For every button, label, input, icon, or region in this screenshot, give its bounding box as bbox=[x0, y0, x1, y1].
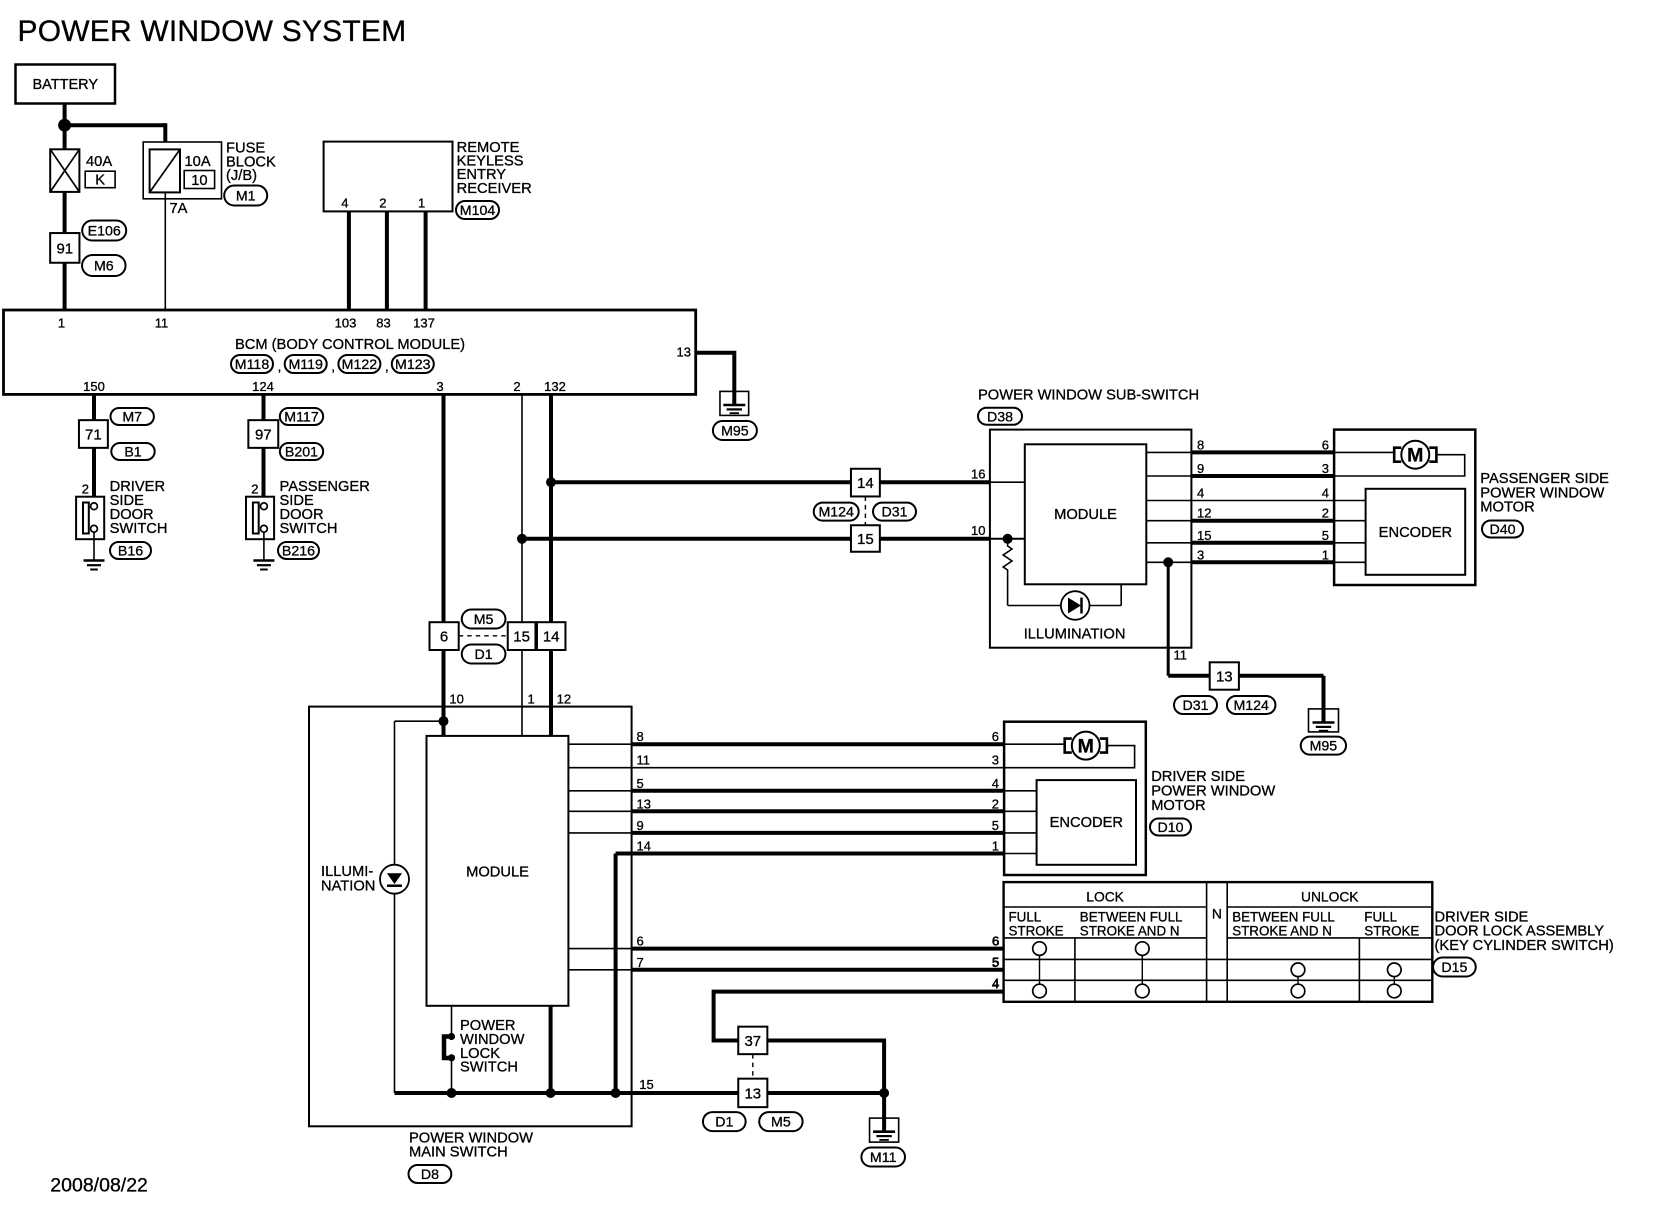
svg-text:SWITCH: SWITCH bbox=[280, 521, 338, 537]
svg-text:10: 10 bbox=[191, 173, 207, 189]
svg-text:M: M bbox=[1078, 736, 1094, 758]
svg-text:2: 2 bbox=[379, 196, 386, 211]
svg-text:STROKE AND N: STROKE AND N bbox=[1232, 924, 1332, 939]
svg-text:FULL: FULL bbox=[1009, 910, 1042, 925]
svg-text:15: 15 bbox=[639, 1077, 653, 1092]
svg-text:14: 14 bbox=[637, 839, 651, 854]
svg-text:K: K bbox=[95, 172, 105, 188]
svg-text:M1: M1 bbox=[236, 189, 256, 205]
svg-text:M124: M124 bbox=[818, 505, 854, 521]
svg-text:ILLUMINATION: ILLUMINATION bbox=[1024, 627, 1126, 643]
svg-text:LOCK: LOCK bbox=[1086, 890, 1124, 905]
svg-text:3: 3 bbox=[1197, 547, 1204, 562]
svg-text:5: 5 bbox=[992, 818, 999, 833]
svg-text:ENCODER: ENCODER bbox=[1379, 525, 1452, 541]
svg-text:D31: D31 bbox=[1182, 698, 1208, 714]
svg-text:BETWEEN FULL: BETWEEN FULL bbox=[1232, 910, 1335, 925]
svg-text:DRIVER SIDE: DRIVER SIDE bbox=[1151, 769, 1245, 785]
svg-text:2: 2 bbox=[82, 482, 89, 497]
svg-text:,: , bbox=[278, 358, 282, 374]
svg-text:MAIN SWITCH: MAIN SWITCH bbox=[409, 1145, 508, 1161]
svg-text:BETWEEN FULL: BETWEEN FULL bbox=[1080, 910, 1183, 925]
svg-text:5: 5 bbox=[637, 776, 644, 791]
svg-text:150: 150 bbox=[83, 379, 105, 394]
svg-text:D1: D1 bbox=[475, 647, 493, 663]
svg-text:(J/B): (J/B) bbox=[226, 168, 257, 184]
svg-text:9: 9 bbox=[637, 818, 644, 833]
svg-text:6: 6 bbox=[440, 629, 448, 646]
svg-text:3: 3 bbox=[1322, 461, 1329, 476]
svg-text:97: 97 bbox=[255, 426, 272, 443]
svg-text:BATTERY: BATTERY bbox=[33, 77, 99, 93]
svg-text:B201: B201 bbox=[285, 445, 318, 461]
svg-text:11: 11 bbox=[155, 316, 169, 331]
svg-text:STROKE AND N: STROKE AND N bbox=[1080, 924, 1180, 939]
svg-text:6: 6 bbox=[637, 934, 644, 949]
svg-text:D38: D38 bbox=[987, 409, 1013, 425]
svg-text:2: 2 bbox=[513, 379, 520, 394]
svg-text:(KEY CYLINDER SWITCH): (KEY CYLINDER SWITCH) bbox=[1435, 938, 1614, 954]
svg-text:M124: M124 bbox=[1233, 698, 1269, 714]
svg-text:1: 1 bbox=[992, 839, 999, 854]
svg-text:9: 9 bbox=[1197, 461, 1204, 476]
svg-text:71: 71 bbox=[85, 426, 102, 443]
svg-text:D15: D15 bbox=[1441, 960, 1467, 976]
svg-text:6: 6 bbox=[992, 729, 999, 744]
svg-text:4: 4 bbox=[1197, 486, 1204, 501]
svg-text:POWER WINDOW SYSTEM: POWER WINDOW SYSTEM bbox=[18, 15, 407, 48]
svg-text:N: N bbox=[1212, 906, 1222, 921]
svg-text:D1: D1 bbox=[715, 1115, 733, 1131]
svg-text:83: 83 bbox=[376, 316, 390, 331]
svg-text:13: 13 bbox=[677, 345, 691, 360]
svg-text:D10: D10 bbox=[1157, 820, 1183, 836]
svg-text:132: 132 bbox=[544, 379, 566, 394]
svg-text:D8: D8 bbox=[421, 1167, 439, 1183]
svg-text:M5: M5 bbox=[474, 612, 494, 628]
svg-text:7A: 7A bbox=[170, 201, 188, 217]
svg-text:2: 2 bbox=[1322, 506, 1329, 521]
svg-text:FULL: FULL bbox=[1364, 910, 1397, 925]
svg-text:10: 10 bbox=[449, 692, 463, 707]
svg-text:124: 124 bbox=[252, 379, 274, 394]
svg-text:M5: M5 bbox=[771, 1115, 791, 1131]
svg-text:UNLOCK: UNLOCK bbox=[1301, 890, 1359, 905]
svg-text:13: 13 bbox=[1216, 668, 1233, 685]
svg-text:D40: D40 bbox=[1489, 522, 1515, 538]
svg-text:NATION: NATION bbox=[321, 879, 375, 895]
svg-text:8: 8 bbox=[1197, 437, 1204, 452]
svg-text:2: 2 bbox=[992, 796, 999, 811]
svg-text:103: 103 bbox=[335, 316, 357, 331]
svg-text:BCM (BODY CONTROL MODULE): BCM (BODY CONTROL MODULE) bbox=[235, 337, 465, 353]
svg-text:4: 4 bbox=[341, 196, 348, 211]
svg-text:MODULE: MODULE bbox=[1054, 507, 1117, 523]
svg-text:10A: 10A bbox=[185, 154, 211, 170]
svg-text:1: 1 bbox=[58, 316, 65, 331]
svg-text:1: 1 bbox=[418, 196, 425, 211]
svg-text:M122: M122 bbox=[342, 357, 378, 373]
svg-text:14: 14 bbox=[543, 629, 560, 646]
svg-text:M104: M104 bbox=[460, 203, 496, 219]
svg-text:STROKE: STROKE bbox=[1009, 924, 1064, 939]
svg-text:13: 13 bbox=[637, 796, 651, 811]
svg-text:D31: D31 bbox=[881, 505, 907, 521]
svg-text:ENCODER: ENCODER bbox=[1050, 815, 1123, 831]
svg-text:,: , bbox=[331, 358, 335, 374]
svg-text:M117: M117 bbox=[284, 410, 319, 426]
svg-text:4: 4 bbox=[992, 776, 999, 791]
svg-text:M: M bbox=[1407, 445, 1423, 467]
svg-text:12: 12 bbox=[557, 692, 571, 707]
svg-text:M6: M6 bbox=[94, 259, 114, 275]
svg-text:MOTOR: MOTOR bbox=[1151, 798, 1205, 814]
svg-text:15: 15 bbox=[1197, 528, 1211, 543]
svg-text:14: 14 bbox=[857, 475, 874, 492]
svg-text:3: 3 bbox=[992, 753, 999, 768]
svg-text:37: 37 bbox=[744, 1033, 761, 1050]
svg-text:12: 12 bbox=[1197, 506, 1211, 521]
svg-text:M123: M123 bbox=[395, 357, 431, 373]
svg-text:11: 11 bbox=[637, 753, 651, 768]
svg-text:5: 5 bbox=[992, 954, 999, 969]
svg-text:1: 1 bbox=[1322, 547, 1329, 562]
svg-text:137: 137 bbox=[413, 316, 435, 331]
svg-text:10: 10 bbox=[971, 523, 985, 538]
svg-text:M95: M95 bbox=[1310, 739, 1338, 755]
svg-text:91: 91 bbox=[56, 240, 73, 257]
svg-text:M11: M11 bbox=[870, 1150, 897, 1166]
svg-text:POWER WINDOW SUB-SWITCH: POWER WINDOW SUB-SWITCH bbox=[978, 388, 1199, 404]
svg-text:7: 7 bbox=[637, 955, 644, 970]
svg-text:2: 2 bbox=[251, 482, 258, 497]
svg-text:4: 4 bbox=[992, 975, 999, 990]
svg-text:B1: B1 bbox=[124, 445, 141, 461]
svg-text:E106: E106 bbox=[88, 224, 121, 240]
svg-text:6: 6 bbox=[1322, 437, 1329, 452]
svg-text:5: 5 bbox=[1322, 528, 1329, 543]
svg-text:40A: 40A bbox=[86, 154, 112, 170]
svg-text:POWER WINDOW: POWER WINDOW bbox=[1151, 784, 1275, 800]
svg-text:STROKE: STROKE bbox=[1364, 924, 1419, 939]
svg-text:MOTOR: MOTOR bbox=[1480, 500, 1534, 516]
svg-text:13: 13 bbox=[744, 1085, 761, 1102]
svg-text:6: 6 bbox=[992, 933, 999, 948]
svg-text:1: 1 bbox=[528, 692, 535, 707]
svg-text:15: 15 bbox=[857, 531, 874, 548]
svg-text:SWITCH: SWITCH bbox=[460, 1060, 518, 1076]
svg-text:8: 8 bbox=[637, 729, 644, 744]
svg-text:SWITCH: SWITCH bbox=[110, 521, 168, 537]
svg-text:M95: M95 bbox=[721, 424, 749, 440]
svg-text:3: 3 bbox=[436, 379, 443, 394]
svg-text:MODULE: MODULE bbox=[466, 865, 529, 881]
svg-text:4: 4 bbox=[1322, 486, 1329, 501]
svg-text:B216: B216 bbox=[282, 544, 315, 560]
svg-text:B16: B16 bbox=[118, 544, 143, 560]
svg-text:15: 15 bbox=[513, 629, 530, 646]
svg-text:11: 11 bbox=[1174, 648, 1188, 663]
svg-text:,: , bbox=[385, 358, 389, 374]
svg-text:M119: M119 bbox=[288, 357, 323, 373]
svg-text:RECEIVER: RECEIVER bbox=[457, 181, 532, 197]
svg-text:M118: M118 bbox=[235, 357, 270, 373]
svg-text:2008/08/22: 2008/08/22 bbox=[50, 1175, 148, 1197]
svg-text:M7: M7 bbox=[122, 410, 142, 426]
svg-text:16: 16 bbox=[971, 467, 985, 482]
